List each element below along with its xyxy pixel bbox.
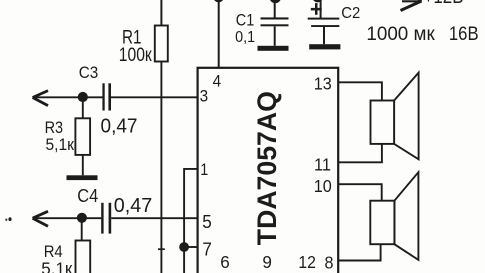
node pin7 junction (179, 242, 189, 252)
wire pin4 to +12V rail (218, 0, 220, 69)
svg-text:9: 9 (262, 252, 272, 272)
svg-text:100к: 100к (119, 44, 152, 66)
node input2/R4 (77, 213, 87, 223)
node input1/R3 (78, 92, 88, 102)
svg-text:11: 11 (314, 154, 331, 174)
speck at left edge 2 (8, 217, 11, 221)
svg-text:1: 1 (200, 160, 208, 179)
speck at left edge (5, 219, 7, 221)
svg-text:C2: C2 (341, 5, 360, 22)
ground below C2 (309, 44, 340, 49)
wire pin 7 (184, 246, 198, 248)
wire R1 bottom (runs to bottom edge) (160, 62, 162, 273)
svg-text:8: 8 (325, 253, 334, 273)
wire pin 11 from speaker 1 (338, 144, 382, 162)
wire R3 to ground (82, 155, 84, 175)
svg-text:+12В: +12В (424, 0, 464, 8)
svg-text:13: 13 (314, 74, 332, 94)
wire C4 to pin 5 (111, 217, 197, 219)
svg-text:0,47: 0,47 (101, 114, 138, 137)
wire pin 10 to speaker 2 (338, 184, 382, 201)
wire C1 to ground (274, 26, 276, 46)
wire C3 to pin 3 (111, 96, 198, 98)
wire C2 to ground (323, 27, 325, 44)
wire input1 to C3 (33, 96, 103, 98)
capacitor C2 (308, 18, 340, 27)
wire input2 to C4 (33, 217, 102, 219)
node on rail above C2 (312, 0, 322, 2)
svg-text:10: 10 (314, 176, 332, 196)
wire C2 top to +12V rail (320, 0, 322, 18)
+12V supply arrow (401, 0, 422, 11)
svg-text:3: 3 (200, 86, 209, 105)
wire node to R3 (82, 99, 84, 118)
capacitor C1 (261, 17, 289, 26)
svg-text:0,47: 0,47 (114, 194, 153, 217)
svg-text:5,1к: 5,1к (41, 258, 72, 273)
svg-text:1000 мк: 1000 мк (366, 23, 435, 45)
junction tick on R1 wire (158, 248, 165, 250)
capacitor C3 (102, 83, 111, 110)
svg-text:7: 7 (202, 239, 212, 259)
svg-text:6: 6 (220, 252, 230, 272)
ground below C1 (258, 46, 289, 51)
svg-text:C1: C1 (236, 12, 255, 30)
wire C1 top to +12V rail (274, 0, 276, 18)
input 1 arrow (33, 91, 48, 106)
speaker LS1 body (371, 101, 395, 144)
svg-text:5,1к: 5,1к (46, 135, 75, 154)
op-amp U1 TDA7057AQ body (198, 68, 339, 273)
wire pin 8/12 from speaker 2 (338, 244, 380, 260)
wire pin 13 to speaker 1 (338, 82, 382, 100)
wire R1 top to +12V rail (160, 0, 162, 26)
svg-text:12: 12 (298, 252, 316, 272)
resistor R1 (155, 26, 168, 62)
svg-text:C3: C3 (79, 63, 99, 82)
node on rail above C1 (270, 0, 282, 3)
svg-text:C4: C4 (77, 185, 98, 206)
svg-text:16В: 16В (449, 23, 479, 45)
svg-text:0,1: 0,1 (235, 29, 255, 46)
capacitor C4 (101, 203, 111, 234)
speaker LS1 cone (394, 73, 419, 160)
node on rail above pin4 (213, 0, 223, 2)
polarity plus of C2 (311, 3, 322, 15)
ground below R3 (67, 175, 98, 180)
input 2 arrow (33, 211, 48, 226)
svg-text:TDA7057AQ: TDA7057AQ (252, 91, 282, 245)
svg-text:4: 4 (213, 71, 222, 90)
wire node to R4 (81, 220, 83, 241)
speaker LS2 body (370, 201, 394, 245)
resistor R3 (75, 118, 90, 155)
svg-text:5: 5 (202, 212, 212, 232)
speaker LS2 cone (394, 172, 418, 260)
wire pin 1 (184, 169, 198, 273)
resistor R4 (cut off at bottom) (76, 241, 91, 273)
